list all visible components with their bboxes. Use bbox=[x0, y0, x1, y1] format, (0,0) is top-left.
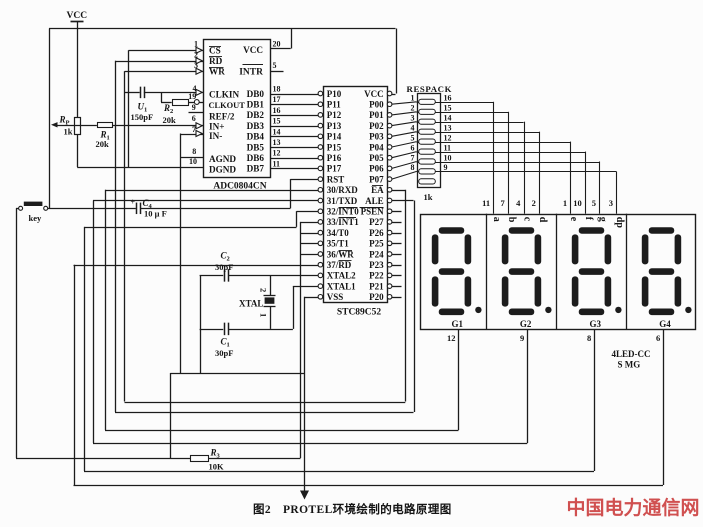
display divider bbox=[556, 214, 558, 330]
svg-text:P27: P27 bbox=[369, 217, 384, 227]
resistor pack element 2 bbox=[417, 112, 419, 114]
svg-text:6: 6 bbox=[656, 333, 660, 343]
svg-text:30pF: 30pF bbox=[215, 262, 233, 272]
stub REF/2 bbox=[189, 112, 204, 114]
svg-text:STC89C52: STC89C52 bbox=[337, 308, 382, 318]
resistor pack element 5 bbox=[417, 142, 419, 144]
svg-text:XTAL: XTAL bbox=[239, 299, 263, 309]
svg-text:10 μ F: 10 μ F bbox=[144, 209, 167, 219]
svg-text:6: 6 bbox=[411, 143, 415, 152]
stub PSEN bbox=[392, 211, 402, 213]
svg-text:P25: P25 bbox=[369, 239, 384, 249]
svg-text:P14: P14 bbox=[327, 132, 342, 142]
svg-text:34/T0: 34/T0 bbox=[327, 228, 350, 238]
svg-text:16: 16 bbox=[273, 106, 281, 115]
stub INTR bbox=[270, 71, 284, 73]
svg-text:1: 1 bbox=[563, 198, 567, 208]
stub P22 bbox=[392, 275, 402, 277]
svg-text:5: 5 bbox=[411, 133, 415, 142]
svg-text:P12: P12 bbox=[327, 110, 342, 120]
resistor R1 bbox=[98, 123, 113, 128]
svg-text:4: 4 bbox=[516, 198, 521, 208]
svg-text:P23: P23 bbox=[369, 260, 384, 270]
svg-text:VCC: VCC bbox=[67, 11, 88, 21]
svg-text:key: key bbox=[29, 213, 43, 223]
svg-text:P01: P01 bbox=[369, 110, 384, 120]
svg-text:10: 10 bbox=[573, 198, 582, 208]
svg-text:P02: P02 bbox=[369, 121, 384, 131]
ADC0804CN box bbox=[204, 40, 271, 178]
svg-text:G3: G3 bbox=[590, 319, 602, 329]
svg-text:WR: WR bbox=[209, 67, 225, 77]
wire ADC WR long to EA bbox=[125, 71, 204, 73]
wire XTAL2 bbox=[318, 273, 323, 278]
wire C4 to RST bbox=[141, 208, 291, 210]
svg-text:P21: P21 bbox=[369, 281, 384, 291]
svg-text:PSEN: PSEN bbox=[361, 207, 385, 217]
wire P03 to RESPACK pin 4 bbox=[392, 132, 417, 137]
svg-text:13: 13 bbox=[444, 124, 452, 133]
svg-text:ALE: ALE bbox=[365, 196, 384, 206]
stub P26 bbox=[392, 233, 402, 235]
svg-text:16: 16 bbox=[444, 94, 452, 103]
svg-text:13: 13 bbox=[273, 138, 281, 147]
wire XTAL1 bbox=[318, 284, 323, 289]
svg-text:2: 2 bbox=[532, 198, 536, 208]
svg-text:1: 1 bbox=[259, 313, 269, 317]
svg-text:4: 4 bbox=[411, 124, 415, 133]
svg-text:DB5: DB5 bbox=[247, 142, 265, 152]
svg-text:P26: P26 bbox=[369, 228, 384, 238]
svg-text:12: 12 bbox=[273, 149, 281, 158]
node CLK junction bbox=[161, 92, 163, 102]
svg-text:2: 2 bbox=[259, 288, 269, 292]
wire analog ground run bbox=[170, 373, 304, 375]
stub P27 bbox=[392, 222, 402, 224]
svg-text:32/INT0: 32/INT0 bbox=[327, 207, 360, 217]
resistor pack element 1 bbox=[417, 102, 419, 104]
svg-text:b: b bbox=[506, 217, 517, 223]
svg-text:中国电力通信网: 中国电力通信网 bbox=[567, 496, 700, 519]
svg-text:15: 15 bbox=[273, 117, 281, 126]
stub P20 bbox=[392, 297, 402, 299]
svg-text:5: 5 bbox=[592, 198, 596, 208]
svg-text:d: d bbox=[537, 217, 548, 223]
wire 31/TXD to G2 common bbox=[318, 198, 323, 203]
wire MCU VCC to rail bbox=[392, 94, 396, 96]
svg-text:20k: 20k bbox=[96, 139, 110, 149]
node P17 pin circle bbox=[318, 166, 323, 171]
svg-text:VCC: VCC bbox=[243, 45, 263, 55]
display divider bbox=[626, 214, 628, 330]
seven segment digit at 521.5 bbox=[509, 227, 535, 234]
wire 33/INT1 to R3 line bbox=[318, 220, 323, 225]
svg-text:P00: P00 bbox=[369, 100, 384, 110]
svg-text:RD: RD bbox=[209, 56, 223, 66]
key switch bbox=[19, 206, 23, 210]
svg-text:INTR: INTR bbox=[239, 68, 263, 78]
svg-text:8: 8 bbox=[411, 163, 415, 172]
wiper arrow of RP1 bbox=[51, 122, 58, 127]
wire cap to WR net bbox=[125, 92, 140, 94]
capacitor C1 30pF bbox=[224, 323, 226, 336]
STC89C52 box bbox=[324, 87, 388, 303]
wire RESPACK pin 10 to display segment column bbox=[440, 162, 599, 164]
wire R3 line bbox=[16, 458, 191, 460]
svg-text:30/RXD: 30/RXD bbox=[327, 185, 358, 195]
svg-text:P20: P20 bbox=[369, 292, 384, 302]
svg-text:VSS: VSS bbox=[327, 292, 344, 302]
svg-text:7: 7 bbox=[411, 153, 415, 162]
svg-text:DB3: DB3 bbox=[247, 121, 265, 131]
svg-text:17: 17 bbox=[273, 95, 281, 104]
svg-text:7: 7 bbox=[501, 198, 506, 208]
wire P07 to RESPACK pin 8 bbox=[392, 171, 417, 179]
wire ADC CS to ground net bbox=[129, 50, 204, 52]
wire crystal bottom bbox=[200, 329, 224, 331]
svg-text:P16: P16 bbox=[327, 153, 342, 163]
wire VSS to ground bbox=[318, 295, 323, 300]
stub P25 bbox=[392, 243, 402, 245]
svg-text:37/RD: 37/RD bbox=[327, 260, 352, 270]
resistor pack element 8 bbox=[417, 171, 419, 173]
resistor pack element 7 bbox=[417, 162, 419, 164]
svg-text:1k: 1k bbox=[64, 127, 73, 137]
stub P23 bbox=[392, 265, 402, 267]
wire 37/RD to G4 common bbox=[318, 262, 323, 267]
svg-text:DB1: DB1 bbox=[247, 100, 265, 110]
svg-text:P17: P17 bbox=[327, 164, 342, 174]
resistor pack element 6 bbox=[417, 152, 419, 154]
svg-text:15: 15 bbox=[444, 104, 452, 113]
potentiometer RP1 bbox=[75, 118, 81, 135]
svg-text:P10: P10 bbox=[327, 89, 342, 99]
wire P00 to RESPACK pin 1 bbox=[392, 102, 417, 104]
svg-text:+: + bbox=[131, 198, 136, 207]
svg-text:G1: G1 bbox=[452, 319, 464, 329]
svg-text:7: 7 bbox=[192, 125, 196, 134]
wire 32/INT0 to G3 common bbox=[318, 209, 323, 214]
svg-text:VCC: VCC bbox=[364, 89, 384, 99]
node P15 pin circle bbox=[318, 145, 323, 150]
svg-text:CLKIN: CLKIN bbox=[209, 90, 239, 100]
svg-text:AGND: AGND bbox=[209, 154, 236, 164]
svg-text:DB2: DB2 bbox=[247, 110, 265, 120]
crystal XTAL bbox=[270, 275, 272, 295]
svg-text:33/INT1: 33/INT1 bbox=[327, 217, 360, 227]
svg-text:2: 2 bbox=[411, 104, 415, 113]
wire left VCC drop to key bbox=[49, 29, 51, 209]
wire P04 to RESPACK pin 5 bbox=[392, 142, 417, 147]
svg-text:10: 10 bbox=[189, 157, 197, 166]
seven segment digit at 451.5 bbox=[439, 227, 465, 234]
svg-text:c: c bbox=[521, 217, 532, 222]
svg-text:P11: P11 bbox=[327, 100, 342, 110]
svg-text:1: 1 bbox=[411, 94, 415, 103]
svg-text:XTAL1: XTAL1 bbox=[327, 281, 356, 291]
svg-text:6: 6 bbox=[192, 114, 196, 123]
wire RST reset net bbox=[318, 177, 323, 182]
seven segment digit at 591.5 bbox=[579, 227, 605, 234]
svg-text:19: 19 bbox=[188, 92, 196, 101]
svg-text:P07: P07 bbox=[369, 174, 384, 184]
svg-text:dp: dp bbox=[614, 217, 625, 229]
svg-text:P15: P15 bbox=[327, 142, 342, 152]
svg-text:P22: P22 bbox=[369, 271, 384, 281]
svg-text:4LED-CC: 4LED-CC bbox=[612, 349, 651, 359]
wire IN- to AGND vertical bbox=[181, 134, 204, 136]
svg-text:12: 12 bbox=[447, 333, 456, 343]
svg-text:31/TXD: 31/TXD bbox=[327, 196, 358, 206]
wire RESPACK pin 9 to display segment column bbox=[440, 171, 616, 173]
svg-text:150pF: 150pF bbox=[131, 112, 154, 122]
wire P02 to RESPACK pin 3 bbox=[392, 122, 417, 126]
wire ground branch to R3 line bbox=[170, 373, 172, 458]
svg-text:P03: P03 bbox=[369, 132, 384, 142]
node P16 pin circle bbox=[318, 155, 323, 160]
wire DGND bbox=[77, 167, 203, 169]
svg-text:CLKOUT: CLKOUT bbox=[209, 101, 246, 110]
resistor pack element 3 bbox=[417, 122, 419, 124]
svg-text:P24: P24 bbox=[369, 249, 384, 259]
svg-text:12: 12 bbox=[444, 133, 452, 142]
wire 30/RXD to G1 common bbox=[318, 188, 323, 193]
svg-text:1k: 1k bbox=[424, 192, 433, 202]
svg-text:1: 1 bbox=[194, 40, 198, 49]
svg-text:20k: 20k bbox=[163, 115, 177, 125]
svg-text:11: 11 bbox=[482, 198, 490, 208]
svg-text:9: 9 bbox=[192, 103, 196, 112]
svg-text:8: 8 bbox=[587, 333, 591, 343]
svg-text:3: 3 bbox=[609, 198, 613, 208]
svg-text:EA: EA bbox=[371, 185, 384, 195]
svg-text:20: 20 bbox=[273, 40, 281, 49]
svg-text:9: 9 bbox=[520, 333, 524, 343]
svg-text:11: 11 bbox=[444, 143, 452, 152]
svg-text:DB7: DB7 bbox=[247, 164, 265, 174]
wire RESPACK pin 16 to display segment column bbox=[440, 102, 493, 104]
wire P06 to RESPACK pin 7 bbox=[392, 162, 417, 169]
stub P24 bbox=[392, 254, 402, 256]
display outer box bbox=[421, 215, 696, 330]
wire RESPACK pin 14 to display segment column bbox=[440, 122, 523, 124]
svg-text:10K: 10K bbox=[209, 462, 225, 472]
svg-text:G2: G2 bbox=[520, 319, 532, 329]
svg-text:DB4: DB4 bbox=[247, 132, 265, 142]
wire ADC RD long bbox=[115, 61, 203, 63]
wire RESPACK pin 13 to display segment column bbox=[440, 132, 539, 134]
svg-text:DB6: DB6 bbox=[247, 153, 265, 163]
node P11 pin circle bbox=[318, 102, 323, 107]
svg-text:11: 11 bbox=[273, 159, 281, 168]
svg-text:G4: G4 bbox=[659, 319, 671, 329]
svg-text:a: a bbox=[491, 217, 502, 222]
svg-text:P04: P04 bbox=[369, 142, 384, 152]
svg-text:S MG: S MG bbox=[618, 360, 641, 370]
node P12 pin circle bbox=[318, 113, 323, 118]
MCU right pin circles bbox=[387, 91, 392, 96]
resistor R2 20k bbox=[161, 102, 172, 104]
svg-text:P13: P13 bbox=[327, 121, 342, 131]
svg-text:IN-: IN- bbox=[209, 131, 222, 141]
wire ADC VCC to rail bbox=[270, 48, 291, 50]
svg-text:XTAL2: XTAL2 bbox=[327, 271, 356, 281]
svg-text:5: 5 bbox=[273, 61, 277, 70]
svg-text:RESPACK: RESPACK bbox=[407, 84, 453, 94]
wire key left down bbox=[16, 208, 19, 210]
svg-text:3: 3 bbox=[411, 114, 415, 123]
capacitor C4 10uF bbox=[136, 203, 138, 215]
wire AGND bbox=[181, 157, 204, 159]
svg-text:DGND: DGND bbox=[209, 165, 236, 175]
svg-text:e: e bbox=[568, 217, 579, 222]
resistor pack element 4 bbox=[417, 132, 419, 134]
stub P21 bbox=[392, 286, 402, 288]
svg-text:REF/2: REF/2 bbox=[209, 112, 235, 122]
svg-text:8: 8 bbox=[192, 147, 196, 156]
node P13 pin circle bbox=[318, 123, 323, 128]
svg-text:18: 18 bbox=[273, 85, 281, 94]
display divider bbox=[486, 214, 488, 330]
wire P05 to RESPACK pin 6 bbox=[392, 152, 417, 158]
svg-text:g: g bbox=[597, 217, 608, 222]
wire R1 to IN+ bbox=[112, 125, 203, 127]
svg-text:35/T1: 35/T1 bbox=[327, 239, 350, 249]
svg-text:RST: RST bbox=[327, 174, 345, 184]
seven segment digit at 661.5 bbox=[649, 227, 675, 234]
svg-text:9: 9 bbox=[444, 163, 448, 172]
ground arrow bbox=[300, 491, 309, 500]
wire RESPACK pin 11 to display segment column bbox=[440, 152, 585, 154]
crystal loop left vertical bbox=[200, 275, 202, 373]
node P10 pin circle bbox=[318, 91, 323, 96]
wire RESPACK pin 12 to display segment column bbox=[440, 142, 570, 144]
svg-text:P06: P06 bbox=[369, 164, 384, 174]
stubs 34/T0 35/T1 36/WR bbox=[318, 230, 323, 235]
node P14 pin circle bbox=[318, 134, 323, 139]
svg-text:IN+: IN+ bbox=[209, 121, 224, 131]
svg-text:2: 2 bbox=[194, 50, 198, 59]
resistor R3 10K bbox=[191, 456, 209, 462]
svg-text:14: 14 bbox=[444, 114, 452, 123]
capacitor C2 30pF bbox=[224, 269, 226, 282]
svg-text:14: 14 bbox=[273, 127, 281, 136]
wire key right / reset rail bbox=[48, 208, 136, 210]
svg-text:3: 3 bbox=[194, 61, 198, 70]
wire P01 to RESPACK pin 2 bbox=[392, 112, 417, 115]
svg-text:10: 10 bbox=[444, 153, 452, 162]
svg-text:30pF: 30pF bbox=[215, 348, 233, 358]
svg-text:DB0: DB0 bbox=[247, 89, 265, 99]
resistor pack element 9 bbox=[419, 179, 436, 184]
wires DB0-DB7 to P10-P17 bbox=[270, 94, 318, 96]
svg-text:P05: P05 bbox=[369, 153, 384, 163]
svg-text:图2 PROTEL环境绘制的电路原理图: 图2 PROTEL环境绘制的电路原理图 bbox=[253, 502, 452, 516]
wire top VCC rail bbox=[49, 28, 396, 30]
capacitor U1 150pF bbox=[140, 87, 142, 99]
wire RESPACK pin 15 to display segment column bbox=[440, 112, 508, 114]
wire cap to CLKIN bbox=[144, 92, 203, 94]
